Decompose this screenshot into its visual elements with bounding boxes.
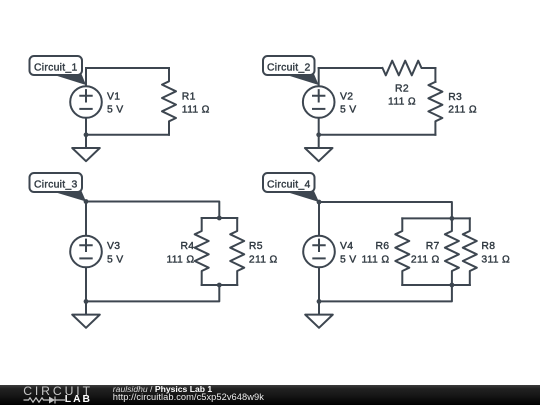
wire R2 to R3 corner <box>434 68 436 82</box>
svg-text:R7: R7 <box>426 241 440 252</box>
voltage source V3 <box>85 202 87 302</box>
CircuitLab logo schematic line: resistor + diode <box>23 395 65 405</box>
resistor R4 <box>195 218 209 285</box>
ground GND3 <box>85 301 87 314</box>
voltage source V4 <box>318 202 320 301</box>
CircuitLab logo wordmark LAB <box>65 395 92 405</box>
wire parallel bottom rail C3 <box>202 284 238 286</box>
svg-text:111 Ω: 111 Ω <box>166 254 194 265</box>
resistor R2 <box>383 61 436 76</box>
wire bottom (R3 to V2-) <box>319 134 436 136</box>
svg-text:5 V: 5 V <box>107 254 124 265</box>
svg-text:5 V: 5 V <box>340 105 357 116</box>
logo diode D <box>49 396 55 403</box>
node tag Circuit_3 <box>51 191 86 202</box>
svg-text:V1: V1 <box>107 91 120 102</box>
wire top (V1+ to R1) <box>86 67 169 69</box>
svg-text:5 V: 5 V <box>107 105 124 116</box>
ground GND4 <box>318 301 320 314</box>
resistor R7 <box>445 218 459 285</box>
svg-text:R1: R1 <box>182 91 196 102</box>
wire top (V3+ to parallel) <box>86 202 219 219</box>
wire top (V4+ to parallel) <box>319 202 452 218</box>
svg-text:R8: R8 <box>481 241 495 252</box>
junction node top-left C3 <box>84 199 89 204</box>
svg-text:R3: R3 <box>448 92 462 103</box>
svg-text:111 Ω: 111 Ω <box>361 254 389 265</box>
junction node R4/R5 bottom <box>217 283 222 288</box>
wire bottom (parallel to V4-) <box>319 285 452 301</box>
junction node R4/R5 top <box>217 216 222 221</box>
wire parallel top rail C4 <box>402 217 470 219</box>
wire V2+ to R2 <box>319 67 382 69</box>
svg-text:R2: R2 <box>395 83 409 94</box>
svg-text:5 V: 5 V <box>340 254 357 265</box>
svg-text:211 Ω: 211 Ω <box>448 105 477 116</box>
svg-text:Circuit_2: Circuit_2 <box>267 62 311 73</box>
CircuitLab logo wordmark CIRCUIT <box>23 385 93 397</box>
resistor R6 <box>395 218 409 285</box>
svg-text:Circuit_4: Circuit_4 <box>267 179 311 190</box>
svg-text:211 Ω: 211 Ω <box>249 254 278 265</box>
junction node V2- ground <box>316 132 321 137</box>
resistor R3 <box>428 82 442 135</box>
node tag Circuit_4 <box>284 191 320 202</box>
wire bottom (parallel to V3-) <box>86 285 219 301</box>
voltage source V2 <box>318 68 320 135</box>
footer bar <box>0 385 540 405</box>
logo resistor <box>23 397 49 401</box>
svg-text:111 Ω: 111 Ω <box>388 96 416 107</box>
wire bottom (R1 to V1-) <box>86 134 169 136</box>
svg-text:311 Ω: 311 Ω <box>481 254 510 265</box>
junction node R6/R7/R8 top <box>450 216 455 221</box>
junction node V1- ground <box>84 132 89 137</box>
ground GND2 <box>318 135 320 148</box>
node tag Circuit_1 <box>51 74 86 85</box>
resistor R5 <box>230 218 244 285</box>
junction node R6/R7/R8 bottom <box>450 283 455 288</box>
wire parallel bottom rail C4 <box>402 284 470 286</box>
node tag Circuit_2 <box>284 74 319 85</box>
resistor R8 <box>463 218 477 285</box>
voltage source V1 <box>85 68 87 135</box>
svg-text:R5: R5 <box>249 241 263 252</box>
svg-text:R4: R4 <box>181 241 195 252</box>
svg-text:Circuit_3: Circuit_3 <box>34 179 78 190</box>
svg-text:111 Ω: 111 Ω <box>182 105 210 116</box>
svg-text:V4: V4 <box>340 241 353 252</box>
ground GND1 <box>85 135 87 148</box>
resistor R1 <box>162 68 176 135</box>
svg-text:Circuit_1: Circuit_1 <box>34 62 78 73</box>
svg-text:211 Ω: 211 Ω <box>411 254 440 265</box>
svg-text:R6: R6 <box>376 241 390 252</box>
junction node V4- ground <box>317 299 322 304</box>
junction node top-left C4 <box>317 200 322 205</box>
svg-text:V2: V2 <box>340 91 353 102</box>
junction node V3- ground <box>84 299 89 304</box>
wire parallel top rail C3 <box>202 217 238 219</box>
footer credit text <box>113 385 212 394</box>
svg-text:V3: V3 <box>107 241 120 252</box>
footer url <box>113 393 264 402</box>
